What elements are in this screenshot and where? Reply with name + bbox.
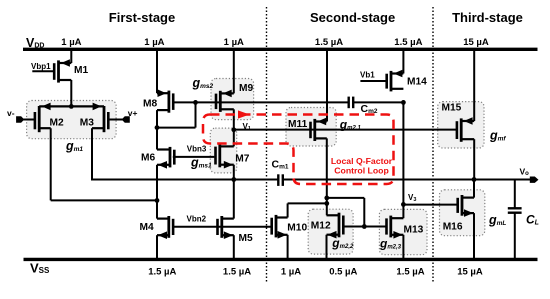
dotted enclosure M15	[438, 102, 484, 148]
wire M9 drain to v1 to M7 drain	[233, 109, 235, 146]
wire M3 drain down	[91, 128, 93, 179]
dotted enclosure M13	[379, 209, 427, 254]
wire M12 source to VSS	[326, 235, 328, 260]
svg-text:M11: M11	[288, 119, 308, 130]
svg-text:15 µA: 15 µA	[457, 267, 483, 278]
svg-text:1 µA: 1 µA	[281, 267, 301, 278]
svg-text:First-stage: First-stage	[109, 10, 175, 25]
svg-text:M16: M16	[443, 222, 463, 233]
svg-text:v+: v+	[128, 108, 138, 118]
wire v1 to M11 and M15 gates	[234, 129, 457, 131]
svg-text:Second-stage: Second-stage	[310, 10, 395, 25]
wire M12-M13 gate feed horizontal	[327, 197, 365, 199]
transistor M6	[157, 147, 174, 169]
svg-text:1.5 µA: 1.5 µA	[148, 267, 176, 278]
node gms2 node	[193, 100, 198, 105]
wire VDD to M11 source	[326, 49, 328, 121]
svg-text:M8: M8	[143, 99, 157, 110]
wire Vb1 lead	[360, 80, 387, 82]
arrow M2 source	[42, 103, 51, 111]
wire V3 to M16 gate	[403, 204, 457, 206]
svg-text:M2: M2	[50, 118, 64, 129]
transistor M8	[157, 89, 173, 112]
svg-text:Third-stage: Third-stage	[452, 10, 523, 25]
wire M8 drain to M6 drain	[156, 110, 158, 149]
svg-text:M4: M4	[140, 222, 154, 233]
wire M11 drain to M12 drain	[326, 138, 328, 215]
wire output to CL	[514, 180, 516, 209]
wire VDD to M14 source	[402, 49, 404, 73]
wire M15 drain to output	[473, 139, 475, 179]
wire M12-M13 gate wire	[343, 226, 387, 228]
svg-text:M6: M6	[141, 152, 155, 163]
svg-text:M1: M1	[74, 65, 88, 76]
svg-text:Vbn2: Vbn2	[187, 214, 207, 223]
arrow M3 source	[93, 103, 102, 111]
svg-text:M9: M9	[239, 83, 253, 94]
svg-text:1 µA: 1 µA	[61, 37, 81, 48]
wire CL to VSS	[514, 213, 516, 260]
wire M14 drain down to V3	[402, 102, 404, 204]
wire output to M16 drain	[473, 180, 475, 198]
node M12 gate feed node	[324, 196, 329, 201]
wire M2-M3 common source	[39, 105, 104, 107]
wire node B to Cm1	[91, 179, 278, 181]
wire M7 source to M5 drain	[233, 165, 235, 219]
wire M16 source to VSS	[473, 213, 475, 259]
wire Cm2 to M14 drain node	[354, 101, 404, 103]
stage separator 1	[266, 7, 268, 283]
wire M1 drain to pair sources	[70, 80, 72, 108]
wire M2 drain down	[50, 128, 52, 200]
wire gms2 gate rail to Cm2	[173, 101, 348, 103]
transistor M14	[387, 70, 404, 92]
wire VDD to M8 source	[156, 49, 158, 93]
svg-text:M12: M12	[311, 221, 331, 232]
red loop direction arrow	[238, 110, 250, 118]
node node A	[155, 198, 160, 203]
wire M10 drain up	[287, 203, 289, 217]
transistor M15	[457, 117, 474, 142]
dotted enclosure M12	[308, 209, 353, 254]
node M8 drain junction	[155, 125, 160, 130]
node node v1	[231, 127, 236, 132]
svg-text:1.5 µA: 1.5 µA	[396, 267, 424, 278]
wire Cm1 to output	[283, 179, 531, 181]
transistor M10	[272, 215, 288, 239]
node M12-M13 gate node	[362, 224, 367, 229]
dotted enclosure M11	[286, 108, 336, 147]
capacitor CL	[508, 208, 522, 212]
node Cm2-M14 node	[401, 100, 406, 105]
capacitor Cm2	[349, 97, 354, 109]
svg-text:M14: M14	[407, 77, 427, 88]
node M10 drain node	[324, 201, 329, 206]
transistor M11	[311, 118, 327, 141]
svg-text:Control Loop: Control Loop	[334, 166, 389, 176]
wire gms2 vertical link	[195, 102, 197, 127]
svg-text:0.5 µA: 0.5 µA	[329, 267, 357, 278]
svg-text:M3: M3	[80, 118, 94, 129]
svg-text:1 µA: 1 µA	[224, 37, 244, 48]
wire M12-M13 gate feed vertical	[363, 198, 365, 227]
node output node	[472, 177, 477, 182]
transistor M1	[32, 59, 71, 82]
wire M5 source to VSS	[233, 235, 235, 259]
VSS rail	[24, 258, 538, 261]
transistor M9	[216, 90, 234, 112]
node node V3	[401, 202, 406, 207]
wire M8 drain to gms2 link	[157, 127, 196, 129]
dotted enclosure gm1 pair	[27, 101, 117, 139]
transistor M7	[216, 144, 234, 169]
red Q-factor control loop outline	[203, 115, 394, 185]
transistor M5	[218, 216, 234, 239]
wire VDD to M15 source	[473, 49, 475, 121]
svg-text:M15: M15	[442, 102, 462, 113]
output pad Vo	[530, 177, 537, 182]
node tail junction	[69, 104, 74, 109]
svg-text:1.5 µA: 1.5 µA	[394, 37, 422, 48]
svg-text:v-: v-	[7, 108, 15, 118]
svg-text:15 µA: 15 µA	[463, 37, 489, 48]
VDD rail	[23, 48, 538, 51]
svg-text:Vbn3: Vbn3	[187, 145, 207, 154]
transistor M16	[458, 195, 474, 217]
svg-text:M7: M7	[235, 154, 249, 165]
svg-text:Vb1: Vb1	[360, 71, 375, 80]
dotted enclosure M7	[210, 128, 236, 173]
wire Vbn3 gate wire	[173, 156, 215, 158]
wire node A horizontal	[51, 199, 157, 201]
node node B	[231, 177, 236, 182]
svg-text:1 µA: 1 µA	[144, 37, 164, 48]
wire M4 source to VSS	[156, 235, 158, 259]
input pad v-	[17, 117, 24, 123]
wire M6 source to M4 drain	[156, 165, 158, 219]
wire Vbn2 gate wire	[172, 226, 271, 228]
transistor M12	[327, 213, 344, 239]
wire M10 drain horizontal	[288, 202, 327, 204]
svg-text:Vbp1: Vbp1	[31, 62, 51, 71]
input pad v+	[122, 117, 129, 123]
wire VDD to M9 source	[233, 49, 235, 93]
wire V3 to M13 drain	[402, 204, 404, 218]
transistor M4	[157, 216, 173, 239]
transistor M13	[387, 216, 404, 239]
transistor M3	[92, 106, 124, 132]
capacitor Cm1	[278, 174, 283, 186]
dotted enclosure M9	[211, 79, 254, 120]
wire M13 source to VSS	[402, 235, 404, 260]
svg-text:M5: M5	[239, 233, 253, 244]
svg-text:Local Q-Factor: Local Q-Factor	[331, 156, 393, 166]
svg-text:M13: M13	[404, 224, 424, 235]
stage separator 2	[432, 7, 434, 283]
transistor M2	[23, 106, 51, 132]
svg-text:1.5 µA: 1.5 µA	[315, 37, 343, 48]
dotted enclosure M16	[440, 190, 485, 236]
wire M10 source to VSS	[287, 235, 289, 260]
svg-text:1.5 µA: 1.5 µA	[223, 267, 251, 278]
wire VDD to M1 source	[70, 49, 72, 63]
svg-text:M10: M10	[287, 223, 307, 234]
